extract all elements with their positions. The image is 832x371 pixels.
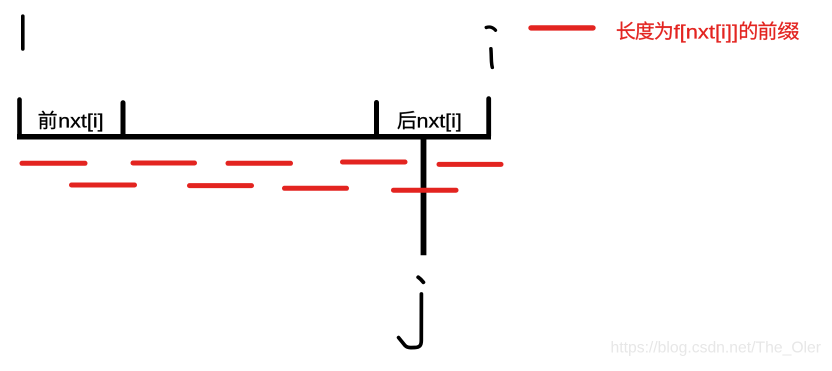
- svg-text:nxt[i]: nxt[i]: [417, 112, 462, 133]
- svg-text:https://blog.csdn.net/The_Oler: https://blog.csdn.net/The_Oler: [611, 340, 822, 357]
- svg-text:nxt[i]: nxt[i]: [58, 112, 103, 133]
- svg-text:f[nxt[i]]: f[nxt[i]]: [674, 22, 739, 43]
